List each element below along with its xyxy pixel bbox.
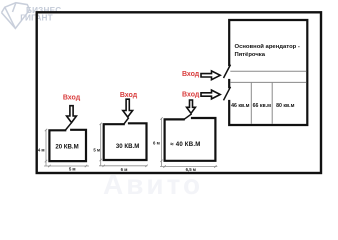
svg-text:46 кв.м: 46 кв.м — [231, 103, 249, 109]
svg-text:80 кв.м: 80 кв.м — [276, 103, 294, 109]
svg-text:5 м: 5 м — [69, 166, 76, 171]
svg-text:Вход: Вход — [182, 71, 200, 78]
svg-text:Пятёрочка: Пятёрочка — [235, 52, 266, 58]
svg-text:66 кв.м: 66 кв.м — [253, 103, 271, 109]
svg-text:30 КВ.М: 30 КВ.М — [116, 143, 139, 150]
svg-text:Основной арендатор -: Основной арендатор - — [235, 43, 300, 50]
svg-text:6,5 м: 6,5 м — [186, 167, 196, 172]
svg-text:6 м: 6 м — [153, 141, 160, 146]
svg-text:Вход: Вход — [63, 94, 81, 101]
svg-text:4 м: 4 м — [38, 147, 45, 152]
svg-text:≈ 40 КВ.М: ≈ 40 КВ.М — [170, 141, 200, 148]
svg-text:Вход: Вход — [120, 92, 138, 99]
svg-text:20 КВ.М: 20 КВ.М — [55, 143, 78, 150]
svg-text:Вход: Вход — [182, 91, 200, 98]
svg-text:6 м: 6 м — [121, 167, 128, 172]
svg-text:5 м: 5 м — [93, 147, 100, 152]
